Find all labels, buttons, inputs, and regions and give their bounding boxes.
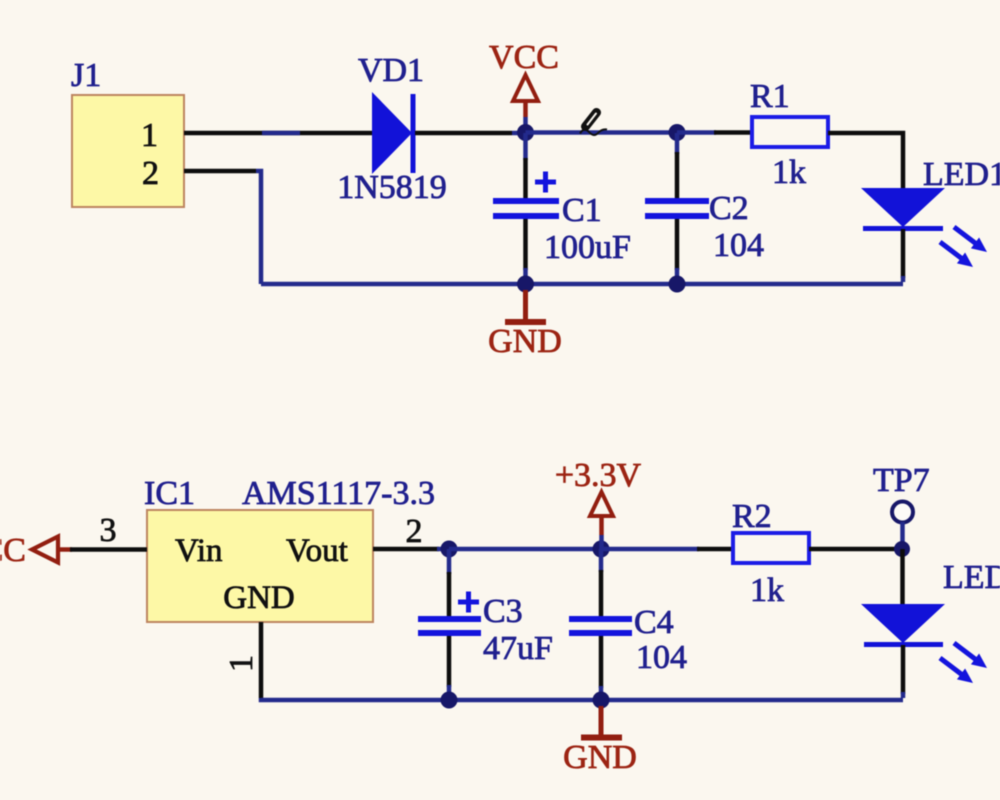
node C4 bottom junction [593,692,610,709]
svg-text:+3.3V: +3.3V [555,457,642,494]
svg-text:2: 2 [142,155,159,192]
wire R1 to LED1 [828,133,903,188]
node TP7 junction [894,541,910,557]
wire J1 pin1 to VD1 anode [184,131,372,136]
diode VD1 1N5819 [337,52,447,206]
ground GND (top) [488,290,562,360]
svg-text:VCC: VCC [489,39,559,76]
svg-text:VD1: VD1 [358,52,424,89]
wire LED1 cathode down [901,229,906,282]
capacitor C2 104 [645,133,764,284]
wire TP7 node to LED2 [900,549,905,604]
svg-text:TP7: TP7 [873,462,930,499]
power port VCC [489,39,559,133]
node C2 top junction [669,124,686,141]
bottom bus wire (top circuit) [261,282,903,287]
svg-text:1: 1 [141,117,158,154]
pencil cursor [580,113,607,136]
svg-text:VCC: VCC [0,532,26,569]
LED LED2 [861,559,1000,683]
resistor R1 1k [750,78,828,191]
wire C2 node to R1 [677,130,752,135]
wire IC1 pin 1 (GND) down to bottom bus [223,622,261,698]
LED LED1 [861,156,1000,267]
wire +3.3V node to R2 [601,547,733,552]
svg-text:1k: 1k [750,572,784,609]
svg-text:104: 104 [713,227,764,264]
wire C3 node to +3.3V node [449,547,601,552]
node VCC junction [517,124,534,141]
capacitor C1 100uF [493,133,631,284]
svg-text:AMS1117-3.3: AMS1117-3.3 [242,475,435,512]
regulator IC1 AMS1117-3.3 [144,475,435,622]
svg-text:R1: R1 [750,78,790,115]
wire J1 pin2 down to bottom bus [184,171,261,284]
svg-text:Vin: Vin [175,533,223,569]
wire VCC port to IC1 pin 3 [70,512,147,550]
svg-text:C1: C1 [562,192,602,229]
wire VCC node to C2 node [526,130,678,135]
svg-text:J1: J1 [71,57,101,94]
power port VCC (input, clipped at left) [0,532,72,569]
svg-text:GND: GND [223,580,295,616]
svg-text:47uF: 47uF [483,630,553,667]
svg-text:1: 1 [223,655,260,672]
wire IC1 pin 2 to C3 node [373,513,449,550]
svg-text:Vout: Vout [286,533,348,569]
capacitor C4 104 [569,549,687,700]
connector J1 [71,57,184,207]
svg-text:C2: C2 [709,190,749,227]
svg-text:1N5819: 1N5819 [337,169,447,206]
svg-text:GND: GND [488,323,562,360]
wire VD1 cathode to node VCC [415,131,522,136]
power port +3.3V [555,457,642,549]
node C3 top junction [441,541,458,558]
svg-text:104: 104 [636,639,687,676]
svg-text:IC1: IC1 [144,475,195,512]
test point TP7 [873,462,930,545]
svg-text:3: 3 [100,512,117,549]
svg-text:C4: C4 [634,604,674,641]
svg-text:LED2: LED2 [943,559,1000,596]
node C1 bottom junction [517,276,534,293]
resistor R2 1k [732,498,809,609]
svg-text:R2: R2 [732,498,772,535]
capacitor C3 47uF [418,549,553,700]
node +3.3V junction [593,541,610,558]
svg-text:LED1: LED1 [923,156,1000,193]
wire LED2 cathode down [901,645,906,698]
ground GND (bottom) [563,706,637,776]
svg-text:C3: C3 [483,593,523,630]
node C3 bottom junction [441,692,458,709]
svg-text:GND: GND [563,739,637,776]
svg-text:100uF: 100uF [544,229,631,266]
bottom bus wire (bottom circuit) [261,698,903,700]
wire R2 to TP7 node [809,547,902,552]
svg-text:2: 2 [406,513,423,550]
node C2 bottom junction [669,276,686,293]
svg-text:1k: 1k [772,154,806,191]
